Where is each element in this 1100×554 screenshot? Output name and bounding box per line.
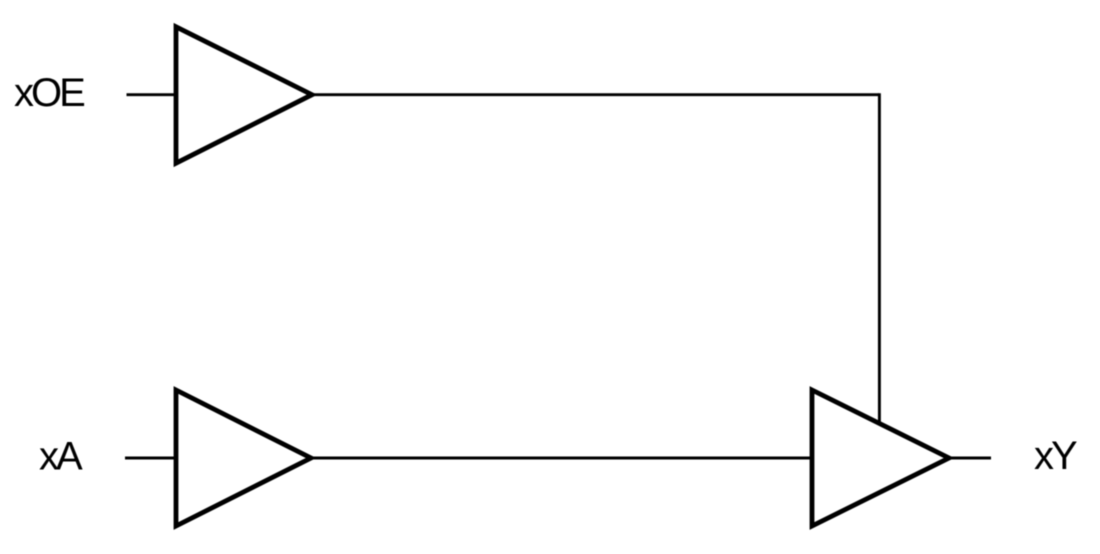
wire G3 output (949, 457, 991, 460)
wire G2 output to G3 input (311, 457, 814, 460)
svg-text:xOE: xOE (14, 71, 84, 115)
buffer G2 (A input buffer) (176, 390, 311, 526)
wire xOE input (127, 93, 179, 96)
wire xA input (125, 457, 178, 460)
wire G1 output to corner (312, 93, 879, 96)
buffer G3 (tri-state output buffer) (812, 390, 949, 526)
svg-text:xY: xY (1034, 434, 1077, 478)
buffer G1 (OE input buffer) (176, 27, 312, 163)
svg-text:xA: xA (39, 435, 83, 479)
wire vertical drop to G3 enable (878, 93, 881, 423)
